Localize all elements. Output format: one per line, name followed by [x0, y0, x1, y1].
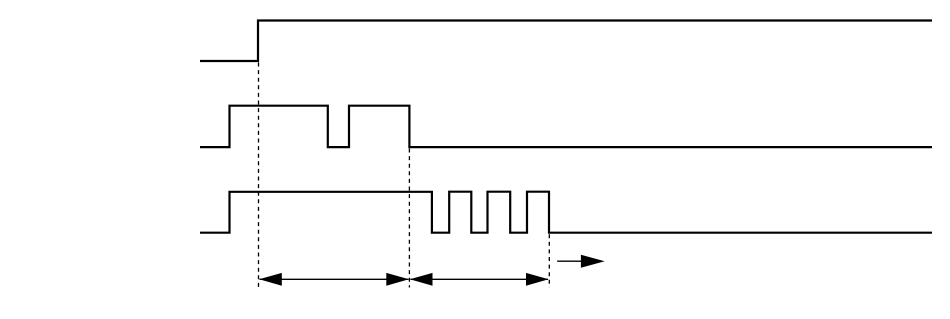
- waveform W3 (bottom burst signal): [200, 192, 932, 233]
- dimension arrow D1 left head: [259, 273, 282, 286]
- dimension arrow D2 left head: [410, 273, 433, 286]
- dashed guide line T2 (at falling edge of W2, x=409.4): [408, 149, 410, 288]
- waveform W1 (top step signal): [200, 21, 932, 62]
- dimension arrow D2 shaft (between T2 and T3): [411, 278, 549, 280]
- continuation arrow D3 head: [581, 255, 605, 268]
- continuation arrow D3 shaft (to the right of T3): [557, 260, 582, 262]
- dashed guide line T1 (at rising edge of W1, x=258.5): [258, 63, 260, 288]
- dashed guide line T3 (at final falling edge of W3, x=549.3): [548, 234, 550, 287]
- dimension arrow D2 right head: [526, 273, 549, 286]
- dimension arrow D1 right head: [386, 273, 409, 286]
- waveform W2 (middle two-pulse signal): [200, 106, 932, 147]
- dimension arrow D1 shaft (between T1 and T2): [260, 278, 409, 280]
